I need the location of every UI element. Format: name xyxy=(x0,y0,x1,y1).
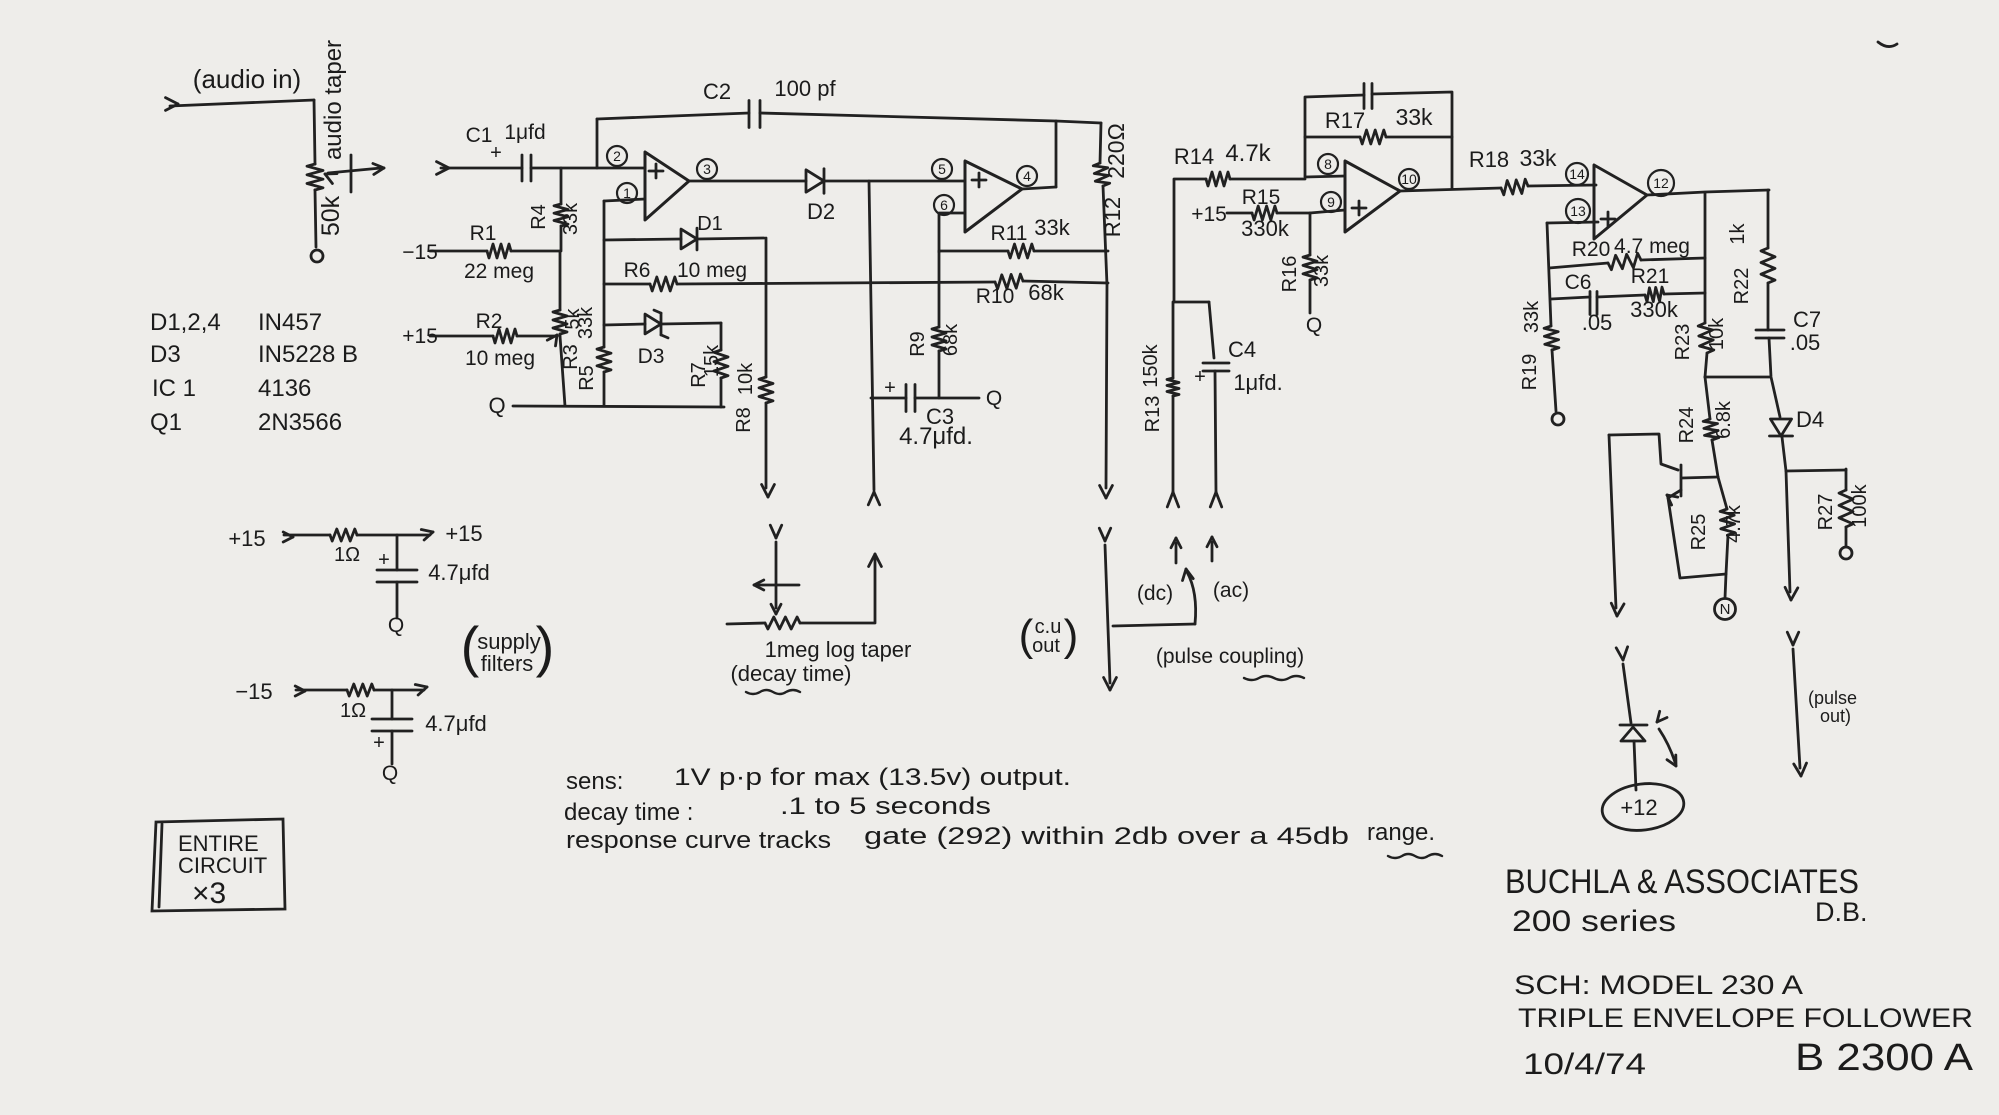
svg-text:CIRCUIT: CIRCUIT xyxy=(178,853,267,878)
svg-text:): ) xyxy=(1064,611,1079,660)
svg-text:4.7k: 4.7k xyxy=(1225,140,1271,167)
svg-text:filters: filters xyxy=(481,651,534,676)
svg-text:10/4/74: 10/4/74 xyxy=(1523,1048,1646,1081)
svg-text:8: 8 xyxy=(1324,156,1332,172)
svg-text:12: 12 xyxy=(1653,175,1669,191)
svg-text:(audio in): (audio in) xyxy=(193,64,301,94)
svg-text:B 2300 A: B 2300 A xyxy=(1795,1037,1974,1079)
svg-text:4.7μfd: 4.7μfd xyxy=(428,560,490,585)
svg-text:−15: −15 xyxy=(235,679,272,704)
svg-text:22 meg: 22 meg xyxy=(464,260,534,283)
svg-text:D.B.: D.B. xyxy=(1815,897,1868,927)
svg-text:(: ( xyxy=(461,615,480,678)
svg-text:33k: 33k xyxy=(1395,104,1433,130)
svg-text:D3: D3 xyxy=(150,341,181,368)
svg-text:33k: 33k xyxy=(1034,215,1070,240)
svg-text:IN457: IN457 xyxy=(258,309,322,336)
svg-text:R6: R6 xyxy=(624,259,651,282)
svg-text:out: out xyxy=(1032,635,1060,657)
svg-text:14: 14 xyxy=(1569,166,1585,182)
svg-text:+: + xyxy=(884,377,896,399)
svg-text:50k: 50k xyxy=(317,195,345,236)
svg-text:+15: +15 xyxy=(228,526,265,551)
svg-text:+12: +12 xyxy=(1620,795,1657,820)
svg-text:68k: 68k xyxy=(940,323,962,356)
svg-text:+15: +15 xyxy=(445,521,482,546)
svg-text:33k: 33k xyxy=(1519,145,1557,171)
svg-text:range.: range. xyxy=(1367,819,1435,846)
svg-text:(ac): (ac) xyxy=(1213,579,1249,602)
svg-text:R11: R11 xyxy=(991,222,1028,245)
svg-text:D1: D1 xyxy=(697,213,723,235)
svg-text:(dc): (dc) xyxy=(1137,582,1173,605)
svg-text:6.8k: 6.8k xyxy=(1713,400,1735,439)
svg-text:100k: 100k xyxy=(1849,483,1871,527)
svg-text:+: + xyxy=(1194,366,1206,388)
svg-text:C2: C2 xyxy=(703,79,731,104)
svg-text:Q: Q xyxy=(986,387,1002,410)
svg-text:(pulse: (pulse xyxy=(1808,688,1857,708)
svg-text:9: 9 xyxy=(1327,194,1335,210)
svg-text:+15: +15 xyxy=(1191,203,1227,226)
svg-text:R15: R15 xyxy=(1242,186,1281,209)
svg-text:R2: R2 xyxy=(476,310,503,333)
svg-text:4.7k: 4.7k xyxy=(1723,504,1745,543)
svg-text:13: 13 xyxy=(1570,203,1586,219)
svg-text:(pulse coupling): (pulse coupling) xyxy=(1156,645,1304,668)
svg-text:audio taper: audio taper xyxy=(320,40,347,160)
svg-text:R10: R10 xyxy=(976,285,1015,308)
svg-text:R5: R5 xyxy=(576,365,598,391)
svg-text:1k: 1k xyxy=(1727,222,1749,244)
svg-text:R23: R23 xyxy=(1672,324,1694,361)
svg-text:4: 4 xyxy=(1023,168,1031,184)
svg-text:C6: C6 xyxy=(1565,271,1592,294)
svg-text:out): out) xyxy=(1820,706,1851,726)
svg-text:33k: 33k xyxy=(575,306,597,339)
svg-text:150k: 150k xyxy=(1140,343,1162,387)
svg-text:R22: R22 xyxy=(1731,268,1753,305)
svg-text:): ) xyxy=(536,615,555,678)
svg-text:R19: R19 xyxy=(1519,354,1541,391)
svg-text:4.7μfd.: 4.7μfd. xyxy=(899,423,973,450)
svg-text:+: + xyxy=(373,732,385,754)
svg-text:15k: 15k xyxy=(701,344,723,377)
svg-text:68k: 68k xyxy=(1028,280,1064,305)
svg-text:6: 6 xyxy=(940,197,948,213)
svg-text:TRIPLE ENVELOPE FOLLOWER: TRIPLE ENVELOPE FOLLOWER xyxy=(1518,1003,1973,1033)
svg-text:(decay time): (decay time) xyxy=(730,661,851,686)
svg-text:D1,2,4: D1,2,4 xyxy=(150,309,221,336)
svg-text:IN5228 B: IN5228 B xyxy=(258,341,358,368)
svg-text:D2: D2 xyxy=(807,199,835,224)
svg-text:2N3566: 2N3566 xyxy=(258,409,342,436)
svg-text:response curve tracks: response curve tracks xyxy=(566,827,831,854)
svg-text:.05: .05 xyxy=(1582,310,1613,335)
svg-text:220Ω: 220Ω xyxy=(1103,123,1129,179)
svg-text:5: 5 xyxy=(938,161,946,177)
svg-text:sens:: sens: xyxy=(566,768,623,795)
svg-text:33k: 33k xyxy=(1521,300,1543,333)
svg-text:×3: ×3 xyxy=(192,877,226,910)
svg-text:SCH: MODEL 230 A: SCH: MODEL 230 A xyxy=(1514,970,1803,1000)
svg-text:+15: +15 xyxy=(402,325,438,348)
svg-text:100 pf: 100 pf xyxy=(774,76,836,101)
svg-text:10: 10 xyxy=(1401,171,1417,187)
svg-text:33k: 33k xyxy=(1311,254,1333,287)
svg-text:1: 1 xyxy=(623,185,631,201)
svg-text:R18: R18 xyxy=(1469,147,1509,172)
svg-text:+: + xyxy=(378,549,390,571)
svg-text:R4: R4 xyxy=(528,204,550,230)
svg-text:R25: R25 xyxy=(1688,514,1710,551)
svg-text:D4: D4 xyxy=(1796,407,1824,432)
svg-text:.05: .05 xyxy=(1790,330,1821,355)
svg-text:Q: Q xyxy=(388,614,404,637)
svg-text:R20: R20 xyxy=(1572,238,1611,261)
svg-text:4.7μfd: 4.7μfd xyxy=(425,711,487,736)
svg-text:−15: −15 xyxy=(402,241,438,264)
svg-text:330k: 330k xyxy=(1241,216,1290,241)
svg-text:3: 3 xyxy=(703,161,711,177)
svg-text:1meg log taper: 1meg log taper xyxy=(765,637,912,662)
svg-text:4.7 meg: 4.7 meg xyxy=(1614,235,1690,258)
svg-text:1μfd: 1μfd xyxy=(504,121,545,144)
svg-text:gate (292) within 2db over a 4: gate (292) within 2db over a 45db xyxy=(864,823,1349,850)
svg-text:R16: R16 xyxy=(1279,256,1301,293)
svg-text:Q: Q xyxy=(488,393,505,418)
svg-text:(: ( xyxy=(1019,611,1034,660)
svg-text:10k: 10k xyxy=(735,362,757,395)
svg-text:R9: R9 xyxy=(907,331,929,357)
svg-text:decay time :: decay time : xyxy=(564,799,693,826)
svg-text:Q1: Q1 xyxy=(150,409,182,436)
svg-text:200 series: 200 series xyxy=(1512,905,1676,938)
svg-text:R13: R13 xyxy=(1142,396,1164,433)
svg-text:D3: D3 xyxy=(638,345,665,368)
svg-text:1μfd.: 1μfd. xyxy=(1233,370,1282,395)
svg-text:R27: R27 xyxy=(1815,494,1837,531)
svg-text:10 meg: 10 meg xyxy=(677,259,747,282)
svg-text:R14: R14 xyxy=(1174,144,1214,169)
svg-text:IC 1: IC 1 xyxy=(152,375,196,402)
svg-text:BUCHLA & ASSOCIATES: BUCHLA & ASSOCIATES xyxy=(1505,863,1859,901)
svg-text:1Ω: 1Ω xyxy=(340,700,366,722)
svg-text:33k: 33k xyxy=(560,202,582,235)
svg-text:4136: 4136 xyxy=(258,375,311,402)
svg-text:R17: R17 xyxy=(1325,108,1365,133)
svg-text:.1 to 5 seconds: .1 to 5 seconds xyxy=(780,793,991,820)
svg-text:1Ω: 1Ω xyxy=(334,544,360,566)
svg-text:R12: R12 xyxy=(1100,197,1125,237)
svg-text:2: 2 xyxy=(613,148,621,164)
svg-text:C4: C4 xyxy=(1228,337,1256,362)
svg-text:Q: Q xyxy=(1306,314,1322,337)
svg-text:C7: C7 xyxy=(1793,307,1821,332)
svg-text:10k: 10k xyxy=(1706,317,1728,350)
svg-text:10 meg: 10 meg xyxy=(465,347,535,370)
svg-text:Q: Q xyxy=(382,762,398,785)
svg-text:C1: C1 xyxy=(466,124,493,147)
svg-text:R8: R8 xyxy=(733,407,755,433)
svg-text:330k: 330k xyxy=(1630,297,1679,322)
svg-text:R1: R1 xyxy=(470,222,497,245)
svg-text:R24: R24 xyxy=(1676,407,1698,444)
svg-text:N: N xyxy=(1720,601,1731,618)
svg-text:R21: R21 xyxy=(1631,265,1670,288)
svg-text:1V p·p for max (13.5v) out: 1V p·p for max (13.5v) output. xyxy=(674,764,1071,791)
